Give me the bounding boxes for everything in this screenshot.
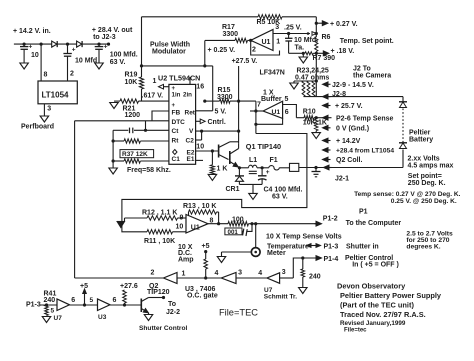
svg-text:6: 6 — [113, 297, 117, 304]
svg-text:16: 16 — [196, 84, 204, 91]
node J2-9 arrow — [323, 82, 374, 89]
resistor 240 pulldown — [301, 258, 321, 288]
svg-text:+: + — [29, 44, 33, 51]
arrow temperature meter P1-3 — [307, 244, 321, 248]
diode D2 — [77, 41, 83, 47]
svg-text:10: 10 — [176, 224, 184, 231]
svg-text:Modulator: Modulator — [152, 48, 186, 55]
wire DTC feedback left drop — [74, 121, 76, 278]
svg-text:File=TEC: File=TEC — [219, 307, 258, 317]
svg-text:4: 4 — [258, 270, 262, 277]
op-amp U1 buffer 1X — [257, 90, 289, 119]
svg-text:Rt: Rt — [172, 137, 180, 144]
svg-text:10K: 10K — [125, 79, 138, 86]
svg-text:R10: R10 — [303, 109, 316, 116]
svg-text:DTC: DTC — [172, 119, 186, 126]
label LF347N — [260, 70, 285, 77]
wire V pin to +27.5 rail — [196, 130, 241, 133]
wire U1 feedback loop — [249, 39, 279, 55]
node P2-6 arrow — [315, 115, 332, 120]
label +27.5 V. — [232, 58, 258, 65]
node P1-2 arrow — [315, 208, 402, 227]
label Q2 TIP120 upper — [147, 283, 170, 296]
wire sense feedback long route — [122, 134, 307, 232]
svg-text:+: + — [72, 47, 76, 54]
resistor +5 pullup — [204, 252, 208, 278]
svg-text:Perfboard: Perfboard — [21, 124, 54, 131]
resistor R13 10K — [183, 203, 219, 224]
resistor 1K base pulldown — [210, 151, 227, 174]
svg-text:R13 , 10 K: R13 , 10 K — [183, 203, 216, 210]
svg-text:240: 240 — [309, 273, 321, 280]
svg-text:4.5 amps max: 4.5 amps max — [408, 163, 454, 170]
svg-text:Pulse Width: Pulse Width — [150, 41, 190, 48]
label .25 V. — [284, 25, 302, 32]
svg-text:5: 5 — [285, 96, 289, 103]
wire +5 shutter — [80, 283, 88, 305]
svg-text:+ 14.2V: + 14.2V — [336, 138, 361, 145]
svg-text:O.C. gate: O.C. gate — [187, 293, 218, 300]
svg-text:1200: 1200 — [125, 112, 141, 119]
capacitor C4 100Mfd — [258, 168, 302, 201]
svg-text:P1: P1 — [359, 208, 368, 215]
ground output filter — [249, 193, 258, 199]
svg-text:Traced Nov. 27/97 R.A.S.: Traced Nov. 27/97 R.A.S. — [340, 310, 426, 319]
resistor R17 with wire — [205, 38, 251, 42]
wire osc left vertical — [112, 130, 115, 162]
svg-text:+28.4 from LT1054: +28.4 from LT1054 — [336, 148, 394, 155]
svg-text:P1-3: P1-3 — [26, 302, 41, 309]
ground R23 — [290, 81, 299, 89]
svg-text:Ct: Ct — [172, 128, 180, 135]
diode peltier top — [399, 102, 407, 108]
svg-text:+5: +5 — [202, 243, 210, 250]
svg-text:Devon Observatory: Devon Observatory — [337, 282, 406, 291]
diode peltier bottom — [399, 143, 407, 149]
svg-text:R19: R19 — [125, 72, 138, 79]
ground pin3 LT1054 — [40, 116, 49, 122]
capacitor 10 Mfd Ta — [285, 34, 318, 54]
svg-text:J2 To: J2 To — [353, 66, 371, 73]
ground below 100Mfd cap — [95, 63, 104, 69]
svg-text:1 K: 1 K — [217, 166, 228, 173]
resistor 100 output — [228, 217, 256, 226]
svg-text:U2 TL594CN: U2 TL594CN — [158, 73, 200, 82]
op-amp U1 DC amp — [176, 214, 214, 233]
ground R21 — [110, 103, 119, 109]
svg-text:LF347N: LF347N — [260, 70, 285, 77]
resistor R23 — [302, 81, 305, 97]
svg-text:F1: F1 — [270, 157, 278, 164]
svg-text:+5: +5 — [80, 283, 88, 290]
wire meter left — [222, 252, 252, 257]
svg-text:.25 V.: .25 V. — [284, 25, 302, 32]
inductor L1 — [249, 157, 258, 174]
resistor R41 240 — [44, 290, 57, 315]
svg-text:P1-4: P1-4 — [324, 256, 339, 263]
svg-text:C1: C1 — [172, 156, 181, 163]
svg-text:Buffer: Buffer — [261, 96, 282, 103]
svg-text:P1-3: P1-3 — [324, 244, 339, 251]
svg-text:+ 0.25 V.: + 0.25 V. — [208, 47, 236, 54]
wire node .617 to U2 row — [142, 64, 213, 67]
svg-text:1: 1 — [276, 38, 280, 45]
svg-text:In ( +5 = OFF ): In ( +5 = OFF ) — [352, 262, 399, 269]
label 10X DC Amp — [178, 244, 194, 264]
wire C2 pin link — [196, 131, 205, 150]
resistor Rt row — [113, 139, 169, 143]
wire P1-2 line — [254, 222, 316, 225]
label P1-3 input — [26, 302, 41, 309]
pin 1in arrow U2 — [153, 78, 169, 89]
wire DTC to Ct link — [144, 121, 147, 132]
wire peltier battery column — [402, 97, 404, 168]
svg-text:Schmitt Tr.: Schmitt Tr. — [264, 293, 297, 300]
svg-text:63 V.: 63 V. — [272, 194, 288, 201]
ground below input cap — [20, 63, 29, 69]
ground R41 — [42, 317, 51, 323]
svg-text:10: 10 — [196, 144, 204, 151]
node +28.4V out label — [92, 27, 133, 41]
wire schmitt input — [280, 277, 294, 279]
label Freq=58 Khz. — [127, 167, 171, 174]
svg-text:Freq=58 Khz.: Freq=58 Khz. — [127, 167, 171, 174]
label U3 7406 OC gate — [185, 286, 218, 300]
svg-text:3: 3 — [275, 24, 279, 31]
capacitor 10 Mfd pump — [63, 44, 97, 81]
svg-text:10 Mfd: 10 Mfd — [75, 58, 97, 65]
svg-text:0.25 V. @ 250 Deg. K.: 0.25 V. @ 250 Deg. K. — [391, 198, 457, 205]
label U7 Schmitt Tr. — [264, 287, 297, 301]
svg-text:Battery: Battery — [409, 137, 433, 144]
wire R23 top — [294, 79, 318, 82]
svg-text:LT1054: LT1054 — [42, 91, 70, 100]
diode CR1 catch — [226, 168, 245, 193]
svg-text:R37 12K: R37 12K — [122, 151, 148, 158]
svg-text:6: 6 — [285, 109, 289, 116]
svg-text:+: + — [172, 103, 176, 109]
capacitor 001 snubber — [225, 224, 252, 236]
svg-text:E1: E1 — [187, 156, 195, 163]
wire L1 to F1 — [257, 167, 269, 169]
node 0V arrow — [323, 125, 370, 132]
svg-text:L1: L1 — [249, 157, 257, 164]
ground meter — [217, 257, 226, 263]
capacitor C input 10uF — [20, 44, 39, 64]
wire inv2 to schmitt — [236, 270, 267, 278]
label P1-3 Shutter in — [324, 244, 379, 251]
transistor Q2 TIP120 shutter — [141, 296, 180, 316]
svg-text:Cntrl.: Cntrl. — [208, 119, 226, 126]
meter temperature — [251, 248, 260, 257]
svg-text:Ret: Ret — [185, 110, 196, 117]
svg-text:Shutter in: Shutter in — [346, 244, 379, 251]
svg-text:+ 25.7 V.: + 25.7 V. — [335, 103, 363, 110]
resistor R11 10K — [144, 230, 186, 245]
svg-text:10: 10 — [31, 52, 39, 59]
svg-text:63 V.: 63 V. — [110, 59, 126, 66]
U2 pin names — [172, 86, 196, 163]
svg-text:degrees K.: degrees K. — [406, 243, 440, 250]
label .617 V. — [142, 92, 164, 99]
svg-text:V: V — [189, 128, 194, 135]
svg-text:1: 1 — [153, 78, 157, 85]
fuse holder box — [290, 163, 299, 171]
resistor R37 bottom row — [113, 159, 169, 163]
svg-text:Shutter Control: Shutter Control — [139, 325, 188, 332]
label 2.xx Volts — [408, 156, 454, 170]
label temp sense cal — [354, 191, 461, 205]
resistor R5 10K — [257, 15, 283, 26]
wire output node y=167.8 — [238, 166, 264, 169]
svg-text:TIP120: TIP120 — [147, 289, 170, 296]
label R23,24,25 0.47 ohms — [295, 68, 329, 82]
transistor Q1 TIP140 darlington — [219, 142, 281, 167]
svg-text:File=tec: File=tec — [344, 328, 367, 334]
svg-text:7: 7 — [257, 102, 261, 109]
wire FB pin stub — [152, 111, 169, 121]
wire inv1 to inv2 — [177, 276, 221, 279]
svg-text:Peltier Battery Power Supply: Peltier Battery Power Supply — [340, 291, 442, 300]
svg-text:Amp: Amp — [178, 256, 194, 263]
svg-text:C2: C2 — [186, 137, 195, 144]
label R15 3300 — [217, 87, 233, 101]
svg-text:+27.5 V.: +27.5 V. — [232, 58, 258, 65]
svg-text:Temp. Set point.: Temp. Set point. — [340, 38, 394, 45]
label 5 — [90, 297, 94, 304]
svg-text:R11 , 10K: R11 , 10K — [144, 238, 175, 245]
resistor R19 10K on left rail — [125, 17, 144, 101]
svg-text:5: 5 — [90, 297, 94, 304]
node +28.4 arrow — [323, 148, 395, 155]
label Set point — [408, 173, 446, 187]
resistor R10 10K — [296, 109, 327, 127]
svg-text:1K: 1K — [318, 120, 327, 127]
svg-text:J2-2: J2-2 — [166, 309, 180, 316]
label Pulse Width Modulator — [150, 41, 190, 55]
ground Q2 emitter — [144, 313, 153, 321]
node +25.7V arrow — [323, 103, 363, 110]
ground setpoint divider — [299, 53, 308, 63]
svg-text:+: + — [266, 169, 270, 176]
svg-text:8: 8 — [44, 72, 48, 79]
wire R17 branch vertical — [204, 40, 206, 66]
wire to J2-1 — [299, 167, 403, 169]
label Perfboard — [21, 124, 54, 131]
resistor R7 390 — [305, 52, 335, 62]
svg-text:(Part of the TEC unit): (Part of the TEC unit) — [340, 301, 414, 310]
wire U1 pin3 to setpoint rail — [273, 32, 316, 36]
svg-text:U1: U1 — [191, 225, 200, 232]
label Temp. Set point. — [340, 38, 394, 45]
wire buffer apex stub — [250, 110, 263, 112]
node +0.27V arrow — [316, 21, 357, 28]
svg-text:J2-1: J2-1 — [335, 176, 349, 183]
label Shutter Control — [139, 325, 188, 332]
svg-text:J2-9 - 14.5 V.: J2-9 - 14.5 V. — [332, 82, 374, 89]
svg-text:To: To — [168, 301, 176, 308]
svg-text:CR1: CR1 — [226, 186, 240, 193]
svg-text:1in: 1in — [172, 92, 181, 99]
node P1-4 arrow — [316, 256, 338, 263]
capacitor J2-1 bypass — [312, 166, 321, 177]
label R17 3300 — [222, 24, 238, 38]
label 2.5 to 2.7 volts — [406, 230, 453, 250]
inverter U3 pin2-1 — [151, 269, 186, 283]
label Temperature Meter — [267, 244, 309, 257]
svg-text:FB: FB — [172, 110, 181, 117]
wire 5V vertical to Ret — [212, 66, 214, 111]
svg-text:3300: 3300 — [223, 31, 239, 38]
svg-text:240: 240 — [44, 297, 56, 304]
wire feedback top rail y=17 — [142, 16, 317, 18]
label Peltier Control In — [345, 255, 399, 269]
svg-text:2: 2 — [70, 71, 74, 78]
svg-text:+ 0.27 V.: + 0.27 V. — [330, 21, 358, 28]
resistor R25 — [312, 81, 315, 97]
resistor R21 1200 — [114, 99, 169, 119]
wire J2-8 line — [304, 91, 404, 99]
svg-text:3: 3 — [47, 106, 51, 113]
wire DTC long feedback — [75, 120, 169, 122]
node Q2 Coll arrow — [323, 157, 363, 164]
ground 240 — [299, 288, 308, 294]
svg-text:Q2 Coll.: Q2 Coll. — [336, 157, 363, 164]
node J2-1 arrow — [324, 165, 350, 182]
wire main input rail y=44 — [14, 43, 110, 46]
svg-text:3: 3 — [238, 270, 242, 277]
buffer U3 shutter — [98, 297, 117, 321]
ground osc network — [109, 161, 118, 174]
svg-text:R12 , 1.1 K: R12 , 1.1 K — [142, 209, 177, 216]
svg-text:9: 9 — [180, 214, 184, 221]
wire E2 to Q1 base — [196, 149, 219, 152]
inverter U3 pin4-3 — [215, 270, 243, 284]
label title Devon Observatory — [337, 282, 442, 334]
svg-text:To the Computer: To the Computer — [346, 220, 402, 227]
svg-text:+ 14.2 V. in.: + 14.2 V. in. — [13, 28, 51, 35]
svg-text:3: 3 — [282, 269, 286, 276]
wire cap to R7 node — [289, 52, 305, 55]
wire buffer feedback loop — [256, 118, 283, 124]
ground 1K — [208, 174, 217, 180]
IC U2 TL594CN box — [158, 73, 204, 164]
ground 1K temp divider — [312, 133, 321, 139]
wire +27.5 rail vertical — [237, 66, 240, 143]
svg-text:5 V.: 5 V. — [215, 108, 227, 115]
label J2 To the Camera — [353, 66, 391, 80]
svg-text:Q1 TIP140: Q1 TIP140 — [246, 142, 281, 151]
svg-text:U1: U1 — [272, 109, 281, 116]
label R37 12K boxed — [120, 150, 154, 159]
resistor R24 — [307, 81, 310, 97]
svg-text:0.47 ohms: 0.47 ohms — [295, 74, 329, 81]
label +5 pullup — [202, 243, 210, 253]
svg-text:2.xx Volts: 2.xx Volts — [408, 156, 440, 163]
svg-text:0 V (Gnd.): 0 V (Gnd.) — [336, 126, 369, 133]
svg-text:Peltier: Peltier — [409, 130, 431, 137]
capacitor 100 Mfd 63V — [95, 44, 138, 66]
svg-text:4: 4 — [215, 270, 219, 277]
resistor R12 1.1K — [125, 209, 187, 220]
wire buffer output — [283, 105, 297, 118]
schmitt trigger U7 — [267, 269, 286, 283]
svg-text:2in: 2in — [183, 92, 192, 99]
resistor 1K to ground — [315, 119, 318, 133]
svg-text:U7: U7 — [54, 315, 63, 322]
svg-text:.617 V.: .617 V. — [142, 92, 164, 99]
wire P1-4 line — [293, 256, 316, 278]
svg-text:to J2-3: to J2-3 — [93, 34, 116, 41]
svg-text:U1: U1 — [262, 39, 271, 46]
wire shutter row — [40, 303, 141, 306]
svg-text:Ta.: Ta. — [295, 45, 305, 52]
resistor R6 — [315, 34, 331, 52]
svg-text:+ .18 V.: + .18 V. — [331, 48, 355, 55]
svg-text:R17: R17 — [222, 24, 235, 31]
svg-text:+: + — [104, 44, 108, 51]
diode D1 — [52, 41, 58, 47]
wire inverter row — [75, 277, 164, 279]
resistor R15 wire — [203, 99, 256, 103]
svg-text:+27.6: +27.6 — [120, 283, 138, 290]
svg-text:1: 1 — [182, 270, 186, 277]
label +0.25V — [208, 47, 236, 54]
U3 LT1054 charge pump — [38, 44, 77, 116]
svg-text:5: 5 — [51, 308, 55, 315]
svg-text:250 Deg. K.: 250 Deg. K. — [408, 180, 446, 187]
svg-text:100 Mfd.: 100 Mfd. — [110, 52, 138, 59]
svg-text:2: 2 — [151, 269, 155, 276]
svg-text:the Camera: the Camera — [353, 73, 391, 80]
capacitor Ct timing — [113, 128, 169, 134]
svg-text:P1-2: P1-2 — [323, 216, 338, 223]
label P2-6 Temp Sense — [336, 116, 394, 123]
svg-text:6: 6 — [71, 297, 75, 304]
svg-text:Set point=: Set point= — [408, 173, 442, 180]
buffer U7 shutter — [54, 297, 76, 322]
wire E1 stub — [196, 159, 203, 161]
resistor +27.6 pullup — [120, 283, 138, 305]
svg-text:001: 001 — [228, 229, 239, 236]
wire Ret 5V — [196, 108, 227, 115]
svg-text:P2-6 Temp Sense: P2-6 Temp Sense — [336, 116, 394, 123]
op-amp U1 LF347 error amp — [251, 24, 281, 53]
node +.18V label — [316, 48, 354, 56]
label Peltier Battery — [409, 130, 433, 144]
svg-text:10 X Temp Sense Volts: 10 X Temp Sense Volts — [266, 234, 342, 241]
node +14.2V input label — [13, 28, 51, 35]
wire DC amp output — [208, 222, 254, 225]
fuse F1 — [269, 157, 279, 170]
pin Cntrl arrow — [196, 119, 226, 126]
wire CR1 C4 common — [239, 184, 262, 193]
svg-text:Revised January,1999: Revised January,1999 — [340, 320, 406, 327]
svg-text:Meter: Meter — [267, 250, 286, 257]
svg-text:100: 100 — [232, 217, 244, 224]
meter branch wire — [255, 224, 257, 248]
svg-text:J2-8: J2-8 — [332, 91, 346, 98]
wire buffer input drop — [254, 101, 257, 133]
label File=TEC — [219, 307, 258, 317]
label 10X Temp Sense Volts — [266, 234, 342, 241]
wire pin16 stub — [189, 77, 191, 84]
node +14.2V arrow — [323, 138, 361, 145]
svg-text:R6: R6 — [322, 34, 331, 41]
ground R12 — [117, 218, 125, 228]
wire F1 to holder — [279, 167, 289, 169]
wire output sense right rail x=316 — [315, 17, 318, 97]
